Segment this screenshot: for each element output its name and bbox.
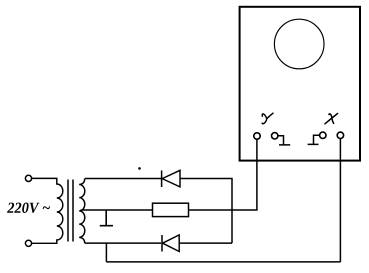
transformer secondary winding <box>79 179 85 244</box>
wire junction vertical to X line <box>105 243 107 262</box>
wire secondary top to diode D1 <box>85 178 161 180</box>
wire X terminal down <box>339 139 341 262</box>
wire centre tap to resistor <box>81 209 153 211</box>
terminal input top <box>25 175 31 181</box>
terminal Y signal <box>254 133 260 139</box>
wire right vertical joining diode outputs <box>231 178 233 243</box>
wire D1 to right junction <box>180 178 232 180</box>
stray dot <box>138 167 141 170</box>
wire secondary bottom to diode D2 <box>85 242 161 244</box>
terminal X ground <box>320 132 326 138</box>
diode D2 cathode bar <box>161 235 163 252</box>
diode D2 triangle <box>163 235 180 252</box>
oscilloscope screen <box>274 19 324 69</box>
transformer core <box>68 180 73 242</box>
transformer primary winding <box>32 178 63 243</box>
terminal input bottom <box>25 240 31 246</box>
terminal X signal <box>337 132 343 138</box>
label X <box>325 114 338 124</box>
wire resistor to Y wire <box>189 209 258 211</box>
diode D1 cathode bar <box>161 171 163 188</box>
X ground symbol <box>308 135 320 144</box>
Y ground symbol <box>278 136 290 145</box>
wire D2 to right junction <box>179 242 232 244</box>
label Y <box>262 113 273 124</box>
oscilloscope body <box>240 7 360 161</box>
wire Y terminal down to resistor output <box>256 139 258 210</box>
diode D1 triangle <box>162 170 180 187</box>
wire bottom horizontal <box>106 261 340 263</box>
terminal Y ground <box>272 133 278 139</box>
ground symbol on centre tap <box>100 210 113 226</box>
resistor R <box>153 203 189 216</box>
label 220V~ <box>7 203 50 213</box>
